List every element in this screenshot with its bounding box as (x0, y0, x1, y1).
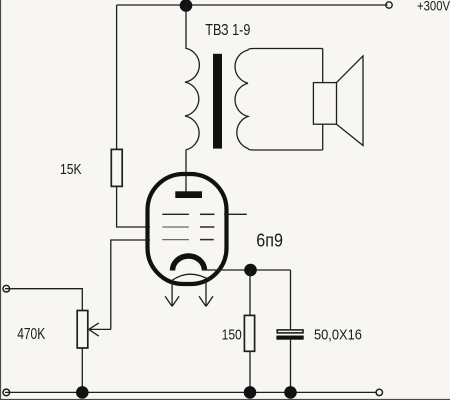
wire: primary to tube anode (185, 150, 187, 192)
tube V1 envelope (148, 174, 227, 284)
ground terminal left (3, 389, 10, 396)
wire: capacitor to ground rail (290, 340, 292, 393)
tube V1 press arc (172, 274, 210, 280)
wire: junction to transformer primary (185, 6, 187, 50)
tube V1 heater lead 1 (165, 281, 179, 307)
speaker LS1 horn (337, 56, 364, 146)
wire: 150 to ground rail (249, 351, 251, 392)
speaker LS1 body (313, 83, 336, 125)
wire: secondary top to speaker (322, 49, 324, 83)
svg-text:150: 150 (222, 326, 243, 343)
svg-text:15K: 15K (60, 161, 82, 177)
wire: secondary bottom to speaker (322, 124, 324, 150)
transformer T1 primary winding (185, 48, 199, 150)
svg-text:+300V: +300V (417, 0, 450, 14)
input terminal (3, 285, 10, 292)
resistor 150 body (244, 315, 254, 351)
wire: wiper to control grid (111, 240, 150, 329)
capacitor C1 plate plus (277, 330, 303, 333)
tube V1 grid g3 dashes and stub (162, 213, 189, 215)
wire: +300V top rail (117, 4, 388, 6)
ground terminal right (376, 389, 382, 395)
transformer T1 secondary winding (235, 49, 323, 151)
tube V1 grid g1 dashes (162, 239, 189, 241)
potentiometer wiper arrow (89, 323, 111, 336)
svg-text:ТВЗ 1-9: ТВЗ 1-9 (205, 22, 250, 40)
transformer T1 core (213, 54, 222, 149)
wire: node to resistor 150 (249, 270, 251, 315)
scan edge bottom (0, 399, 450, 400)
junction node pot/ground (76, 386, 89, 399)
junction node 150/ground (244, 386, 257, 399)
wire: node to capacitor (290, 270, 292, 329)
capacitor C1 plate minus (276, 336, 303, 340)
wire: 15K to screen grid (117, 187, 150, 228)
scan edge left (0, 0, 1, 400)
svg-text:50,0X16: 50,0X16 (314, 327, 362, 343)
svg-text:6п9: 6п9 (256, 230, 283, 251)
resistor 15K body (111, 149, 122, 186)
junction node anode/supply (180, 0, 193, 12)
wire: top rail down to 15K (116, 5, 118, 149)
wire: cathode to node (205, 269, 291, 271)
tube V1 heater lead 2 (199, 281, 213, 307)
ground rail (5, 391, 377, 393)
wire: potentiometer to ground rail (81, 348, 83, 392)
tube V1 anode plate (175, 191, 202, 198)
svg-text:470K: 470K (17, 324, 46, 342)
tube V1 cathode (173, 256, 205, 271)
tube V1 grid g2 dashes (162, 226, 189, 228)
wire: input to potentiometer (5, 289, 82, 311)
potentiometer 470K body (77, 311, 88, 349)
junction node cathode (244, 264, 257, 277)
junction node cap/ground (284, 386, 297, 399)
terminal +300V (386, 2, 392, 8)
